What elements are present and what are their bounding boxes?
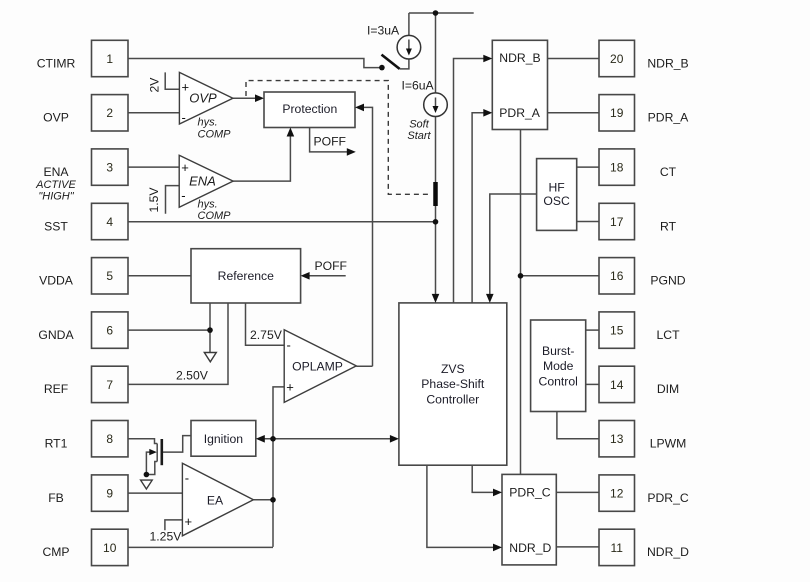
svg-text:4: 4 [106, 215, 113, 229]
svg-text:-: - [182, 110, 186, 125]
svg-text:ACTIVE: ACTIVE [35, 179, 76, 191]
svg-text:I=6uA: I=6uA [402, 79, 435, 93]
svg-text:PGND: PGND [650, 274, 685, 288]
svg-text:19: 19 [610, 106, 624, 120]
svg-text:REF: REF [44, 382, 68, 396]
svg-text:NDR_D: NDR_D [647, 545, 689, 559]
svg-text:COMP: COMP [198, 129, 232, 141]
svg-text:HF: HF [548, 181, 564, 195]
svg-text:OPLAMP: OPLAMP [292, 360, 343, 374]
svg-text:17: 17 [610, 215, 624, 229]
svg-text:LPWM: LPWM [650, 437, 687, 451]
svg-text:GNDA: GNDA [38, 328, 74, 342]
svg-text:hys.: hys. [198, 199, 218, 211]
svg-text:OVP: OVP [43, 111, 69, 125]
svg-text:PDR_A: PDR_A [499, 106, 541, 120]
svg-text:9: 9 [106, 487, 113, 501]
svg-text:-: - [287, 338, 291, 353]
svg-text:RT1: RT1 [45, 437, 68, 451]
svg-text:PDR_C: PDR_C [647, 491, 689, 505]
svg-text:2.75V: 2.75V [250, 328, 283, 342]
svg-text:+: + [286, 380, 294, 395]
svg-text:Control: Control [539, 374, 578, 388]
svg-text:I=3uA: I=3uA [367, 24, 400, 38]
svg-text:15: 15 [610, 324, 624, 338]
svg-text:16: 16 [610, 269, 624, 283]
svg-text:FB: FB [48, 491, 64, 505]
svg-text:Controller: Controller [426, 392, 479, 406]
svg-text:2.50V: 2.50V [176, 369, 209, 383]
svg-text:6: 6 [106, 324, 113, 338]
svg-text:SST: SST [44, 219, 68, 233]
svg-text:7: 7 [106, 378, 113, 392]
svg-text:hys.: hys. [198, 117, 218, 129]
svg-text:NDR_B: NDR_B [647, 56, 688, 70]
svg-text:1.5V: 1.5V [147, 187, 161, 213]
svg-text:Burst-: Burst- [542, 344, 575, 358]
svg-text:CTIMR: CTIMR [37, 56, 76, 70]
svg-text:2: 2 [106, 106, 113, 120]
svg-text:Phase-Shift: Phase-Shift [421, 377, 485, 391]
svg-text:-: - [181, 188, 185, 203]
svg-text:11: 11 [610, 541, 623, 555]
svg-text:+: + [181, 160, 189, 175]
svg-text:LCT: LCT [656, 328, 680, 342]
svg-text:OVP: OVP [189, 91, 217, 106]
svg-text:3: 3 [106, 161, 113, 175]
svg-text:Start: Start [407, 130, 431, 142]
svg-text:+: + [182, 80, 190, 95]
svg-text:VDDA: VDDA [39, 274, 74, 288]
svg-text:1: 1 [106, 52, 113, 66]
svg-text:NDR_D: NDR_D [509, 541, 551, 555]
svg-text:5: 5 [106, 269, 113, 283]
svg-text:14: 14 [610, 378, 624, 392]
svg-text:ENA: ENA [189, 174, 216, 189]
svg-text:EA: EA [207, 494, 224, 508]
svg-text:Reference: Reference [218, 269, 274, 283]
svg-text:Ignition: Ignition [204, 432, 243, 446]
svg-text:Protection: Protection [282, 102, 337, 116]
svg-text:18: 18 [610, 161, 624, 175]
svg-text:CMP: CMP [42, 545, 69, 559]
svg-text:PDR_C: PDR_C [509, 486, 551, 500]
svg-text:NDR_B: NDR_B [499, 51, 540, 65]
svg-text:POFF: POFF [314, 135, 347, 149]
svg-text:20: 20 [610, 52, 624, 66]
svg-text:-: - [185, 471, 189, 486]
svg-text:10: 10 [103, 541, 117, 555]
svg-text:12: 12 [610, 487, 624, 501]
svg-text:+: + [185, 514, 193, 529]
svg-text:CT: CT [660, 165, 677, 179]
svg-text:ZVS: ZVS [441, 362, 465, 376]
svg-text:Soft: Soft [409, 119, 430, 131]
svg-text:COMP: COMP [198, 210, 232, 222]
svg-text:ENA: ENA [43, 165, 69, 179]
svg-text:"HIGH": "HIGH" [38, 191, 74, 203]
svg-text:OSC: OSC [543, 194, 570, 208]
svg-text:2V: 2V [148, 77, 162, 93]
svg-text:PDR_A: PDR_A [648, 111, 690, 125]
svg-text:RT: RT [660, 219, 677, 233]
svg-text:POFF: POFF [315, 259, 348, 273]
svg-text:1.25V: 1.25V [150, 530, 183, 544]
svg-text:13: 13 [610, 432, 624, 446]
svg-text:8: 8 [106, 432, 113, 446]
svg-text:DIM: DIM [657, 382, 679, 396]
svg-text:Mode: Mode [543, 359, 574, 373]
